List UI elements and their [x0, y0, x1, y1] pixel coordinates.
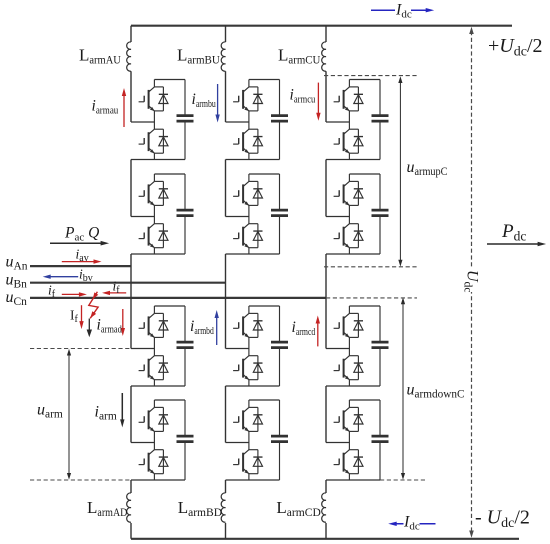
arrow i_av: [62, 261, 97, 263]
wire B: bus to SM B1 entry: [225, 26, 227, 122]
svg-text:if: if: [113, 279, 121, 297]
submodule B4 (phase B lower arm): [226, 400, 289, 480]
black fault arrow below bolt: [87, 319, 92, 338]
wire B: SM B2 exit through AC node to SM B3 entry: [225, 254, 227, 349]
wire A: SM A1 exit to SM A2 entry: [130, 160, 132, 217]
dashed line: top of u_arm span (left): [30, 348, 131, 350]
arrow i_armbd (up): [216, 315, 218, 346]
bracket u_armdownC: [402, 300, 404, 478]
wire A: SM A3 exit to SM A4 entry: [130, 386, 132, 443]
svg-text:uarmdownC: uarmdownC: [407, 382, 465, 401]
dashed line: top of upper arm C: [324, 75, 419, 77]
top DC bus (+): [131, 25, 512, 27]
bracket u_arm: [68, 351, 70, 478]
submodule A1 (phase A upper arm): [131, 80, 194, 160]
Udc rail bottom arrowhead: [469, 531, 474, 538]
wire C: SM C1 exit to SM C2 entry: [325, 160, 327, 217]
submodule B2 (phase B upper arm): [226, 174, 289, 254]
wire B: SM B1 exit to SM B2 entry: [225, 160, 227, 217]
wire A: SM A2 exit through AC node to SM A3 entry: [130, 254, 132, 349]
submodule B3 (phase B lower arm): [226, 306, 289, 386]
svg-text:if: if: [48, 283, 56, 301]
dashed line: top of lower arm C: [326, 297, 417, 299]
Udc rail top arrowhead: [469, 27, 474, 34]
inductor LarmBU: [221, 42, 225, 71]
wire C: bus to SM C1 entry: [325, 26, 327, 122]
svg-text:+Udc/2: +Udc/2: [488, 35, 543, 60]
label Udc rotated: [462, 267, 481, 292]
arrow i_f (right, into fault): [107, 292, 127, 294]
svg-text:LarmCU: LarmCU: [278, 46, 321, 67]
svg-text:- Udc/2: - Udc/2: [475, 507, 530, 532]
wire C: SM C3 exit to SM C4 entry: [325, 386, 327, 443]
dashed line: bottom of upper arm C: [324, 266, 419, 268]
submodule A3 (phase A lower arm): [131, 306, 194, 386]
dashed Udc rail: [471, 31, 473, 534]
blue Idc arrows: [371, 8, 436, 526]
svg-text:If: If: [70, 308, 79, 326]
wire B: SM B4 exit to coil and bottom bus: [225, 480, 227, 539]
wire A: SM A4 exit to coil and bottom bus: [130, 480, 132, 539]
svg-text:iarmau: iarmau: [92, 98, 119, 117]
wire A: bus to SM A1 entry: [130, 26, 132, 122]
fault lightning bolt: [88, 292, 98, 320]
svg-text:iarmcu: iarmcu: [290, 87, 316, 106]
arrow i_f (left, into fault): [62, 293, 83, 295]
wire uAn line: [30, 265, 131, 267]
arrow i_armad (down): [122, 309, 124, 332]
svg-text:LarmCD: LarmCD: [276, 498, 321, 519]
submodule B1 (phase B upper arm): [226, 80, 289, 160]
arrow Idc bottom: [393, 523, 436, 525]
arrow i_armbu (down): [217, 84, 219, 118]
wire C: SM C4 exit to coil and bottom bus: [325, 480, 327, 539]
inductor LarmCU: [322, 42, 326, 71]
svg-text:iav: iav: [76, 247, 89, 265]
submodule A2 (phase A upper arm): [131, 174, 194, 254]
svg-text:LarmAD: LarmAD: [87, 498, 128, 519]
inductor LarmAD: [127, 493, 131, 522]
submodule C3 (phase C lower arm): [326, 306, 389, 386]
arrow I_f (fault current down): [81, 305, 83, 324]
submodule A4 (phase A lower arm): [131, 400, 194, 480]
arrow P_ac Q (black): [50, 241, 546, 428]
svg-text:uCn: uCn: [6, 289, 28, 308]
svg-text:iarmad: iarmad: [97, 317, 123, 336]
wire uBn line: [30, 282, 226, 284]
arrow i_armcd (up): [317, 320, 319, 346]
svg-text:iarmcd: iarmcd: [292, 319, 316, 338]
svg-text:LarmBD: LarmBD: [178, 498, 223, 519]
submodule C4 (phase C lower arm): [326, 400, 389, 480]
wire uCn line: [30, 297, 326, 299]
svg-text:Pac Q: Pac Q: [64, 225, 99, 244]
svg-text:iarmbd: iarmbd: [190, 318, 214, 337]
arrow i_armcu (down): [317, 83, 319, 117]
svg-text:Idc: Idc: [403, 514, 420, 533]
arrow Idc top: [371, 9, 429, 11]
wire B: SM B3 exit to SM B4 entry: [225, 386, 227, 443]
svg-text:Pdc: Pdc: [501, 221, 526, 244]
dashed line: bottom of u_arm span (left): [30, 479, 131, 481]
wire C: SM C2 exit through AC node to SM C3 entry: [325, 254, 327, 349]
dashed line: bottom of lower arm C: [380, 479, 427, 481]
svg-text:uAn: uAn: [6, 254, 28, 273]
arrow P_dc (black): [487, 243, 541, 245]
bottom DC bus (-): [131, 538, 519, 540]
svg-text:iarmbu: iarmbu: [192, 91, 217, 110]
svg-text:LarmBU: LarmBU: [177, 46, 220, 67]
inductor LarmBD: [221, 493, 225, 522]
inductor LarmCD: [322, 493, 326, 522]
submodule C2 (phase C upper arm): [326, 174, 389, 254]
svg-text:iarm: iarm: [95, 404, 117, 423]
svg-text:Idc: Idc: [395, 2, 412, 21]
bracket u_armupC: [399, 79, 401, 264]
arrow i_bv (left): [47, 276, 78, 278]
svg-text:ibv: ibv: [79, 267, 93, 285]
submodule C1 (phase C upper arm): [326, 80, 389, 160]
arrow i_armau (up): [123, 93, 125, 128]
svg-text:uBn: uBn: [6, 272, 28, 291]
svg-text:uarm: uarm: [37, 402, 63, 421]
arrow i_arm (down): [121, 393, 123, 422]
inductor LarmAU: [127, 42, 131, 71]
svg-text:uarmupC: uarmupC: [407, 159, 448, 178]
svg-text:LarmAU: LarmAU: [79, 46, 121, 67]
